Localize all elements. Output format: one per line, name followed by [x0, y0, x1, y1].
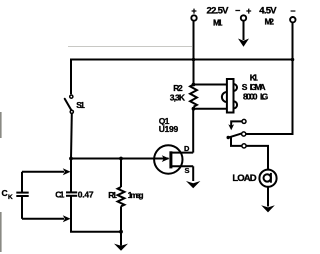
svg-text:M1: M1 [213, 17, 223, 27]
wire: load to ground [267, 187, 269, 207]
wire: left rail down to C1 [70, 159, 72, 193]
wire: top bus [71, 59, 293, 61]
node at bus right corner [291, 58, 295, 62]
svg-text:3,3K: 3,3K [170, 92, 186, 102]
svg-text:R2: R2 [173, 83, 183, 93]
ghost line artifact [68, 46, 192, 48]
transistor Q1 U199 [154, 145, 193, 173]
resistor R2 [190, 85, 197, 107]
svg-text:C1: C1 [55, 189, 64, 199]
ground at source [186, 181, 200, 188]
node R1 top [119, 157, 123, 161]
load lamp [259, 170, 276, 187]
svg-text:S1: S1 [76, 100, 85, 110]
relay contact B (middle) [242, 132, 246, 136]
wire: right rail down to relay contact B [246, 60, 293, 135]
capacitor C1 [66, 192, 77, 195]
label C K [2, 188, 14, 201]
svg-text:0.47: 0.47 [78, 189, 94, 199]
wire: contact C to load [246, 146, 268, 169]
wire: M1+ stem down to R2 [193, 21, 195, 85]
svg-text:4.5V: 4.5V [259, 6, 277, 17]
svg-text:M2: M2 [265, 16, 275, 26]
svg-text:C: C [2, 188, 8, 198]
terminal + of M1 [191, 6, 196, 21]
ground at R1/C1 [114, 232, 128, 251]
relay armature [227, 134, 242, 146]
svg-text:–: – [235, 5, 240, 15]
svg-text:D: D [184, 144, 190, 153]
node gate-left [69, 157, 73, 161]
node R2 top [192, 83, 196, 87]
wire: drain up to R2 bottom [192, 109, 194, 153]
svg-text:LOAD: LOAD [232, 173, 256, 184]
arrow from center tap [238, 21, 249, 47]
node at bus cross [192, 58, 196, 62]
capacitor CK [16, 172, 28, 219]
node bottom junction [119, 230, 123, 234]
svg-text:1meg: 1meg [128, 190, 144, 200]
svg-text:8000: 8000 [243, 91, 258, 101]
wire: left rail switch to gate node [70, 113, 73, 158]
wire: M2- stem down to bus corner [292, 22, 294, 59]
terminal - of M2 [290, 6, 295, 23]
svg-text:R1: R1 [108, 190, 117, 200]
wire: source down [192, 166, 194, 181]
relay K1 coil [222, 79, 237, 113]
svg-text:S: S [185, 166, 190, 175]
relay contact C (bottom) [242, 144, 246, 148]
wire: R2 top to relay coil [194, 84, 228, 86]
capacitor CK branch bottom wire with arrow [22, 215, 71, 222]
relay contact A (top) [228, 119, 246, 130]
svg-text:U199: U199 [159, 124, 179, 134]
node R2 bottom [192, 107, 196, 111]
svg-text:–: – [290, 6, 295, 16]
scan edge smudge left [0, 112, 2, 138]
wire: R2 bottom to relay coil [194, 108, 228, 110]
resistor R1 [118, 159, 125, 232]
svg-text:+: + [246, 6, 251, 16]
svg-text:22.5V: 22.5V [207, 6, 230, 17]
capacitor CK branch top wire with arrow [22, 168, 71, 175]
ground at load [261, 205, 275, 212]
wire: left rail from bus to switch [70, 59, 72, 95]
svg-text:LG: LG [260, 91, 269, 101]
wire: gate node line [71, 158, 155, 160]
switch S1 [65, 95, 74, 113]
svg-text:K: K [8, 194, 13, 201]
terminal M1- / M2+ [235, 5, 251, 21]
wire: left rail below C1 to bottom corner [71, 197, 121, 232]
